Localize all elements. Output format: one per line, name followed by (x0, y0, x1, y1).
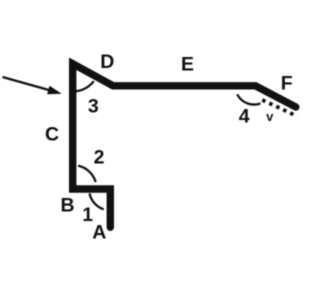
svg-text:v: v (266, 109, 274, 124)
svg-text:B: B (60, 195, 74, 217)
svg-text:F: F (281, 73, 293, 95)
svg-text:4: 4 (239, 106, 250, 128)
svg-text:E: E (181, 54, 194, 76)
svg-text:3: 3 (88, 96, 99, 118)
svg-text:1: 1 (82, 204, 93, 226)
svg-text:C: C (45, 123, 59, 145)
svg-text:A: A (92, 222, 106, 244)
svg-text:2: 2 (94, 147, 105, 169)
svg-text:D: D (100, 51, 114, 73)
